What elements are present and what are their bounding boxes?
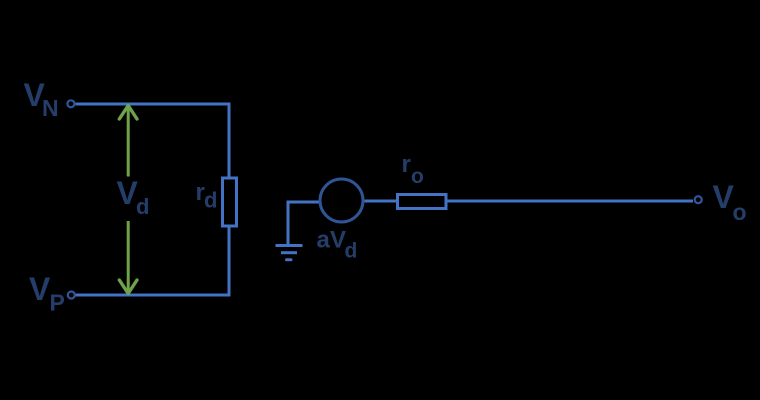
terminal VP [68, 292, 75, 299]
svg-text:N: N [42, 95, 59, 121]
svg-text:P: P [50, 290, 65, 316]
label Vd text box (opaque, breaks arrow shaft) [113, 177, 159, 222]
svg-text:o: o [733, 199, 747, 225]
wire bottom: corner to VP terminal [76, 294, 230, 297]
svg-text:r: r [402, 151, 411, 178]
Vd arrowhead top [119, 106, 137, 120]
wire source to ro [365, 200, 398, 203]
svg-text:d: d [204, 188, 217, 213]
Vd arrowhead bottom [119, 280, 137, 294]
terminal Vo [695, 196, 702, 203]
svg-text:d: d [136, 194, 149, 219]
dependent source aVd circle [320, 179, 363, 222]
wire ro to Vo terminal [446, 200, 693, 203]
wire right vertical upper [228, 103, 231, 179]
svg-text:o: o [411, 165, 424, 188]
svg-text:a: a [317, 227, 331, 254]
Vd arrow shaft [127, 106, 130, 293]
svg-text:V: V [29, 271, 51, 307]
wire right vertical lower [228, 226, 231, 297]
svg-text:V: V [713, 179, 735, 215]
ground [288, 202, 319, 244]
terminal VN [67, 100, 74, 107]
resistor rd [223, 178, 237, 226]
resistor ro [398, 195, 447, 209]
wire top: VN terminal to corner [76, 103, 230, 106]
svg-text:d: d [345, 240, 358, 263]
